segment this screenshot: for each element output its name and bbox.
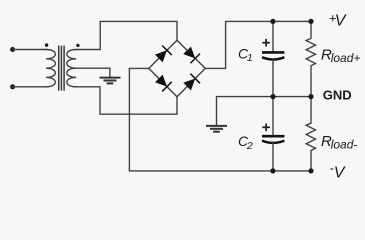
label C2 bbox=[238, 133, 253, 152]
diode D4 (bottom to right) bbox=[183, 74, 200, 91]
bridge edge left-top bbox=[149, 40, 177, 68]
wire primary top lead bbox=[13, 49, 46, 51]
resistor Rload+ bbox=[306, 21, 315, 96]
diode D1 (left to top) bbox=[155, 45, 172, 62]
resistor Rload- bbox=[306, 97, 315, 171]
label C1 bbox=[238, 45, 253, 64]
plus sign C1 bbox=[262, 39, 270, 47]
svg-text:GND: GND bbox=[323, 88, 352, 103]
capacitor C1 bbox=[262, 21, 284, 96]
ground GND rail bbox=[206, 126, 227, 132]
capacitor C2 bbox=[262, 97, 284, 171]
junction dot -V rail / C2 bbox=[270, 168, 275, 173]
input terminal bottom bbox=[10, 84, 15, 89]
svg-text:2: 2 bbox=[246, 140, 253, 152]
svg-text:load+: load+ bbox=[331, 51, 361, 65]
input terminal top bbox=[10, 47, 15, 52]
svg-text:load-: load- bbox=[331, 138, 358, 152]
ground center tap bbox=[100, 78, 121, 84]
bridge edge left-bottom bbox=[149, 68, 177, 96]
svg-text:1: 1 bbox=[247, 52, 253, 64]
junction dot +V rail / Rload+ bbox=[308, 19, 313, 24]
transformer T1 primary winding bbox=[46, 50, 55, 87]
wire secondary top to bridge top bbox=[76, 21, 177, 49]
wire primary bottom lead bbox=[13, 86, 46, 88]
wire GND rail bbox=[217, 97, 312, 126]
junction dot GND rail / C2 bbox=[270, 94, 275, 99]
label Rload+ bbox=[321, 46, 360, 65]
transformer T1 core bbox=[59, 46, 64, 91]
bridge edge bottom-right bbox=[177, 68, 205, 96]
junction dot +V rail / C1 bbox=[270, 19, 275, 24]
junction dot GND rail / Rload- bbox=[308, 94, 313, 99]
label -V bbox=[330, 161, 346, 182]
plus sign C2 bbox=[262, 124, 270, 132]
polarity dot secondary bbox=[76, 44, 79, 47]
wire center tap bbox=[76, 68, 110, 77]
label GND bbox=[323, 88, 352, 103]
svg-text:V: V bbox=[335, 12, 347, 29]
bridge edge top-right bbox=[177, 40, 205, 68]
transformer T1 secondary winding bbox=[67, 50, 76, 87]
wire secondary bottom to bridge bottom bbox=[76, 87, 177, 114]
wire bridge minus output to -V rail bbox=[129, 68, 311, 170]
diode D2 (top to right) bbox=[183, 46, 200, 63]
svg-text:V: V bbox=[334, 164, 346, 181]
diode D3 (left to bottom) bbox=[155, 75, 172, 92]
polarity dot primary bbox=[45, 43, 48, 46]
junction dot -V rail / Rload- bbox=[308, 168, 313, 173]
wire bridge plus output to +V rail bbox=[205, 21, 311, 68]
label Rload- bbox=[321, 133, 357, 152]
label +V bbox=[329, 11, 347, 30]
